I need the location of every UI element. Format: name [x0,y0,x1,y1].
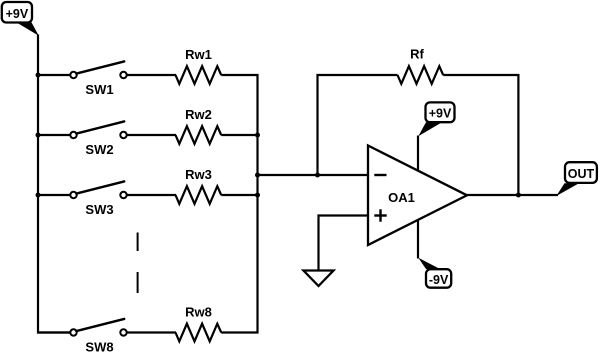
junction: right bus row 2 [255,133,260,138]
svg-text:-9V: -9V [429,273,449,287]
net label OUT [556,162,597,196]
svg-text:Rf: Rf [410,47,424,62]
svg-text:Rw2: Rw2 [185,107,212,122]
svg-text:SW2: SW2 [85,142,113,157]
junction: right bus row 3 [255,193,260,198]
resistor Rw3 [176,167,222,204]
junction: feedback at inverting input [315,173,320,178]
junction: left bus row 3 [36,193,41,198]
wire: Rw3 to right bus [221,194,258,196]
resistor Rw2 [176,107,222,144]
resistor Rw8 [176,305,222,342]
switch SW1 [70,61,126,97]
wire: op-amp output [466,194,558,196]
switch SW2 [70,121,126,157]
svg-text:+9V: +9V [6,7,29,21]
svg-text:Rw8: Rw8 [185,305,212,320]
wire: SW1 contact to Rw1 [126,74,176,76]
wire: Rw2 to right bus [221,134,258,136]
wire: non-inverting input to ground branch [319,216,369,272]
op-amp OA1 [368,146,467,246]
switch SW8 [70,319,126,354]
svg-text:+9V: +9V [429,106,452,120]
wire: left bus to SW8 contact [38,331,71,333]
wire: -9V supply pin [417,219,419,259]
resistor Rw1 [176,47,222,84]
wire: SW8 contact to Rw8 [126,331,176,333]
svg-text:Rw3: Rw3 [185,167,212,182]
wire: left bus to SW1 contact [38,74,71,76]
wire: summing bus to op-amp inverting input [258,174,369,176]
svg-text:OUT: OUT [568,167,595,181]
wire: left bus to SW3 contact [38,194,71,196]
power label -9V (op-amp V-) [418,258,451,288]
svg-text:OA1: OA1 [388,190,415,205]
switch SW3 [70,181,126,217]
wire: SW2 contact to Rw2 [126,134,176,136]
wire: feedback left vertical [318,75,398,175]
continuation dashes (rows 4..7 omitted) [137,233,139,294]
svg-text:SW3: SW3 [85,202,113,217]
wire: left bus to SW2 contact [38,134,71,136]
resistor Rf [398,47,444,84]
ground [304,271,334,287]
junction: right bus to op-amp tap [255,173,260,178]
svg-text:Rw1: Rw1 [185,47,212,62]
junction: feedback at output [516,193,521,198]
wire: SW3 contact to Rw3 [126,194,176,196]
power label +9V (op-amp V+) [418,102,454,136]
power label +9V (top left supply) [2,2,39,36]
wire: +9V supply pin [417,136,419,172]
wire: feedback right side down to output [443,75,518,195]
junction: left bus row 1 [36,73,41,78]
wire: right summing bus (row1 across, down, into Rw8) [221,75,257,333]
junction: left bus row 2 [36,133,41,138]
svg-text:SW8: SW8 [85,340,113,354]
svg-text:SW1: SW1 [85,82,113,97]
wire: left +9V bus (vertical, turns right into SW8) [38,35,71,333]
